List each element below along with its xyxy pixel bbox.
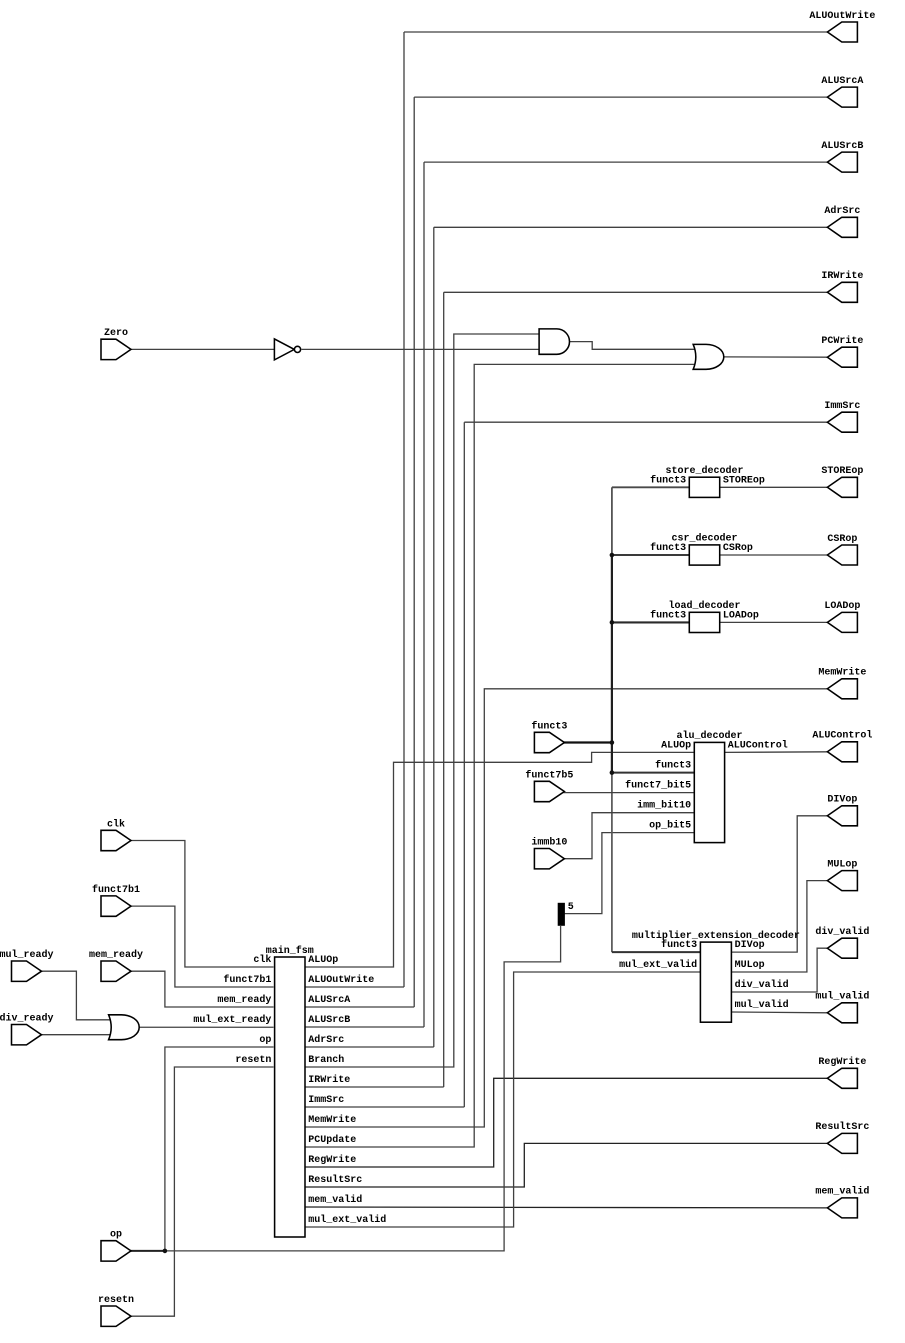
net MemWrite xyxy=(305,689,829,1127)
bus funct3 to load_decoder xyxy=(612,621,690,623)
net PCUpdate xyxy=(305,364,698,1147)
net op_bit5 xyxy=(565,833,696,914)
svg-text:MemWrite: MemWrite xyxy=(818,667,866,679)
net mem_ready xyxy=(130,971,274,1007)
svg-text:div_ready: div_ready xyxy=(0,1013,54,1025)
svg-text:mul_ready: mul_ready xyxy=(0,949,54,961)
bus funct3 to alu_decoder xyxy=(612,772,695,774)
net mem_valid xyxy=(305,1206,829,1209)
net ALUOutWrite horizontal xyxy=(404,31,829,33)
svg-text:mul_ext_ready: mul_ext_ready xyxy=(193,1014,271,1026)
net ALUSrcB riser xyxy=(423,162,425,1027)
block store_decoder xyxy=(689,477,719,497)
net Branch xyxy=(305,334,540,1067)
output port ResultSrc xyxy=(827,1133,857,1153)
input port clk xyxy=(101,830,131,850)
svg-text:op: op xyxy=(110,1230,122,1241)
net op to main_fsm xyxy=(165,1047,274,1251)
svg-text:mul_ext_valid: mul_ext_valid xyxy=(619,959,697,971)
svg-text:MULop: MULop xyxy=(735,960,765,971)
svg-text:funct3: funct3 xyxy=(650,474,686,486)
net DIVop xyxy=(731,816,829,952)
svg-text:CSRop: CSRop xyxy=(827,534,857,545)
svg-text:funct7b1: funct7b1 xyxy=(223,974,271,986)
net immb10 xyxy=(563,813,695,859)
svg-text:clk: clk xyxy=(253,954,271,966)
net ALUOp xyxy=(305,752,695,967)
net mul_ext_valid xyxy=(305,972,701,1227)
net IRWrite horizontal xyxy=(444,291,830,293)
net STOREop xyxy=(720,486,830,488)
svg-text:STOREop: STOREop xyxy=(821,466,863,477)
block alu_decoder xyxy=(694,742,724,842)
net ALUSrcA riser xyxy=(413,97,415,1007)
svg-text:ALUOutWrite: ALUOutWrite xyxy=(809,10,875,22)
net div_ready xyxy=(41,1034,114,1036)
svg-text:ALUControl: ALUControl xyxy=(812,730,872,742)
net funct7b1 xyxy=(130,906,274,987)
net Zero_n xyxy=(302,348,541,350)
svg-text:ALUOp: ALUOp xyxy=(308,955,338,966)
net ALUOutWrite row stub xyxy=(305,986,404,988)
net op to slice xyxy=(165,926,561,1251)
output port STOREop xyxy=(827,477,857,497)
input port immb10 xyxy=(534,849,564,869)
svg-text:imm_bit10: imm_bit10 xyxy=(637,800,691,812)
net ALUControl xyxy=(725,751,830,754)
svg-text:ALUSrcB: ALUSrcB xyxy=(308,1015,350,1026)
input port funct7b5 xyxy=(534,781,564,801)
net IRWrite riser xyxy=(443,292,445,1087)
block csr_decoder xyxy=(689,545,719,565)
output port AdrSrc xyxy=(827,217,857,237)
junction funct3 input xyxy=(610,740,615,745)
svg-text:div_valid: div_valid xyxy=(815,926,869,938)
svg-text:LOADop: LOADop xyxy=(824,601,860,612)
net ALUOutWrite riser xyxy=(403,32,405,987)
net ImmSrc horizontal xyxy=(464,421,829,423)
junction funct3 load xyxy=(610,620,615,625)
svg-text:funct3: funct3 xyxy=(655,760,691,772)
AND gate xyxy=(539,329,569,354)
bus slice op[5] constant bar xyxy=(558,903,565,926)
output port LOADop xyxy=(827,612,857,632)
svg-text:mem_valid: mem_valid xyxy=(308,1194,362,1206)
net AdrSrc horizontal xyxy=(434,226,830,228)
svg-text:op: op xyxy=(259,1035,271,1046)
svg-text:LOADop: LOADop xyxy=(723,610,759,621)
bus funct3 vertical trunk xyxy=(611,555,613,773)
svg-text:funct7_bit5: funct7_bit5 xyxy=(625,780,691,792)
output port mem_valid xyxy=(827,1198,857,1218)
svg-text:PCWrite: PCWrite xyxy=(821,335,863,347)
svg-text:ImmSrc: ImmSrc xyxy=(824,401,860,412)
output port ALUSrcB xyxy=(827,152,857,172)
svg-text:ALUSrcB: ALUSrcB xyxy=(821,141,863,152)
svg-text:ImmSrc: ImmSrc xyxy=(308,1095,344,1106)
svg-text:funct3: funct3 xyxy=(650,542,686,554)
svg-text:resetn: resetn xyxy=(98,1295,134,1306)
svg-text:funct7b5: funct7b5 xyxy=(525,769,573,781)
svg-text:RegWrite: RegWrite xyxy=(818,1056,866,1068)
output port RegWrite xyxy=(827,1068,857,1088)
svg-text:mem_valid: mem_valid xyxy=(815,1186,869,1198)
input port funct7b1 xyxy=(101,896,131,916)
net and_out xyxy=(570,342,699,350)
output port ALUSrcA xyxy=(827,87,857,107)
junction funct3 alu xyxy=(610,770,615,775)
bus funct3 to csr_decoder xyxy=(612,554,690,556)
output port MemWrite xyxy=(827,679,857,699)
svg-text:ALUOutWrite: ALUOutWrite xyxy=(308,974,374,986)
net ResultSrc xyxy=(305,1143,829,1187)
output port CSRop xyxy=(827,545,857,565)
net ImmSrc row stub xyxy=(305,1106,464,1108)
svg-text:mul_valid: mul_valid xyxy=(815,991,869,1003)
svg-text:funct3: funct3 xyxy=(661,939,697,951)
output port MULop xyxy=(827,871,857,891)
block multiplier_extension_decoder xyxy=(700,942,731,1022)
net AdrSrc row stub xyxy=(305,1046,434,1048)
net ALUSrcB row stub xyxy=(305,1026,424,1028)
net mul_ready xyxy=(41,971,114,1020)
svg-text:ALUControl: ALUControl xyxy=(728,739,788,751)
svg-text:DIVop: DIVop xyxy=(827,795,857,806)
junction funct3 csr xyxy=(610,553,615,558)
OR gate (mul_ext_ready) xyxy=(109,1015,140,1040)
svg-text:IRWrite: IRWrite xyxy=(308,1074,350,1086)
net clk xyxy=(130,841,274,968)
output port IRWrite xyxy=(827,282,857,302)
input port mul_ready xyxy=(12,961,42,981)
svg-text:ALUSrcA: ALUSrcA xyxy=(821,76,863,87)
svg-text:mul_ext_valid: mul_ext_valid xyxy=(308,1214,386,1226)
output port ALUControl xyxy=(827,742,857,762)
output port div_valid xyxy=(827,938,857,958)
svg-text:mul_valid: mul_valid xyxy=(735,999,789,1011)
svg-text:mem_ready: mem_ready xyxy=(217,994,271,1006)
svg-text:AdrSrc: AdrSrc xyxy=(824,205,860,217)
net AdrSrc riser xyxy=(433,227,435,1047)
svg-text:5: 5 xyxy=(568,902,574,913)
bus funct3 vertical upper xyxy=(611,487,613,555)
svg-text:ResultSrc: ResultSrc xyxy=(815,1121,869,1133)
net ALUSrcA row stub xyxy=(305,1006,414,1008)
svg-text:ResultSrc: ResultSrc xyxy=(308,1174,362,1186)
svg-text:mem_ready: mem_ready xyxy=(89,949,143,961)
svg-text:STOREop: STOREop xyxy=(723,475,765,486)
input port op xyxy=(101,1241,131,1261)
svg-text:RegWrite: RegWrite xyxy=(308,1154,356,1166)
OR gate (PCWrite) xyxy=(693,344,724,369)
net IRWrite row stub xyxy=(305,1086,444,1088)
input port mem_ready xyxy=(101,961,131,981)
bus funct3 port stub xyxy=(563,741,612,743)
svg-text:Branch: Branch xyxy=(308,1054,344,1066)
bus funct3 to mul_ext_decoder xyxy=(612,951,702,953)
svg-text:immb10: immb10 xyxy=(531,837,567,849)
block load_decoder xyxy=(689,612,719,632)
net RegWrite xyxy=(305,1078,829,1167)
net MULop xyxy=(731,881,829,972)
net ALUSrcB horizontal xyxy=(424,161,829,163)
inverter (NOT gate) xyxy=(274,339,294,360)
input port div_ready xyxy=(12,1025,42,1045)
svg-text:MULop: MULop xyxy=(827,859,857,870)
output port PCWrite xyxy=(827,347,857,367)
svg-text:CSRop: CSRop xyxy=(723,543,753,554)
net PCWrite xyxy=(723,356,830,358)
svg-text:funct3: funct3 xyxy=(650,609,686,621)
input port resetn xyxy=(101,1306,131,1326)
svg-text:main_fsm: main_fsm xyxy=(266,945,314,957)
output port ImmSrc xyxy=(827,412,857,432)
svg-text:multiplier_extension_decoder: multiplier_extension_decoder xyxy=(632,930,800,942)
net funct7b5 xyxy=(563,792,695,794)
svg-text:MemWrite: MemWrite xyxy=(308,1114,356,1126)
net div_valid xyxy=(731,948,829,992)
svg-text:IRWrite: IRWrite xyxy=(821,270,863,282)
output port mul_valid xyxy=(827,1003,857,1023)
svg-text:resetn: resetn xyxy=(235,1055,271,1066)
net LOADop xyxy=(720,621,830,623)
input port funct3 xyxy=(534,732,564,752)
net CSRop xyxy=(720,554,830,556)
svg-text:PCUpdate: PCUpdate xyxy=(308,1134,356,1146)
net ALUSrcA horizontal xyxy=(414,96,829,98)
svg-text:funct7b1: funct7b1 xyxy=(92,884,140,896)
bus funct3 vertical lower xyxy=(611,773,613,953)
svg-text:AdrSrc: AdrSrc xyxy=(308,1034,344,1046)
svg-text:funct3: funct3 xyxy=(531,720,567,732)
svg-text:clk: clk xyxy=(107,818,125,830)
svg-text:ALUSrcA: ALUSrcA xyxy=(308,995,350,1006)
input port Zero xyxy=(101,339,131,359)
svg-text:DIVop: DIVop xyxy=(735,940,765,951)
output port ALUOutWrite xyxy=(827,22,857,42)
net resetn xyxy=(130,1067,274,1316)
svg-text:op_bit5: op_bit5 xyxy=(649,820,691,832)
net mul_ext_ready xyxy=(138,1026,273,1028)
net Zero xyxy=(130,348,275,350)
net ImmSrc riser xyxy=(463,422,465,1107)
junction op xyxy=(163,1249,168,1254)
output port DIVop xyxy=(827,806,857,826)
net op port stub xyxy=(130,1250,165,1252)
svg-text:Zero: Zero xyxy=(104,328,128,339)
net mul_valid xyxy=(731,1011,829,1014)
bus funct3 to store_decoder xyxy=(612,486,690,488)
svg-text:div_valid: div_valid xyxy=(735,979,789,991)
svg-text:ALUOp: ALUOp xyxy=(661,740,691,751)
block main_fsm xyxy=(275,957,305,1237)
